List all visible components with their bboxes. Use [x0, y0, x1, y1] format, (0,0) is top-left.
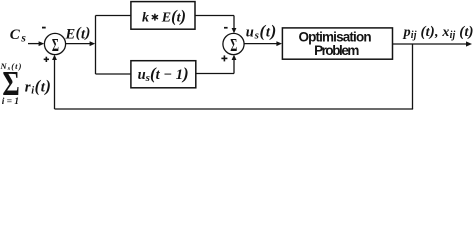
- delay block us(t-1): [131, 61, 196, 88]
- svg-text:Σ: Σ: [230, 37, 237, 56]
- svg-text:ri(t): ri(t): [25, 76, 52, 96]
- summation sigma symbol: [2, 63, 19, 102]
- minus sign at S1 top input: [42, 27, 46, 29]
- svg-text:Problem: Problem: [314, 43, 359, 58]
- gain block k*E(t): [131, 2, 195, 30]
- wire output pij(t), xij(t): [393, 41, 472, 46]
- wire feedback tap down: [412, 44, 414, 109]
- wire to delay block input: [96, 73, 131, 75]
- svg-text:us(t): us(t): [246, 22, 277, 42]
- wire delay block output to S2 bottom: [196, 55, 237, 74]
- svg-text:Σ: Σ: [52, 37, 59, 56]
- summing junction S2: [223, 33, 244, 56]
- wire Cs input arrow into summing junction S1: [28, 41, 44, 46]
- wire to gain block input: [96, 15, 131, 17]
- summing junction S1: [44, 33, 65, 56]
- wire E(t) from S1 to branch point: [66, 41, 95, 46]
- svg-text:i=1: i=1: [2, 97, 21, 107]
- wire branch vertical at node E: [95, 16, 97, 75]
- svg-text:E(t): E(t): [65, 25, 91, 42]
- wire feedback left rise into S1: [52, 55, 57, 109]
- plus sign at S2 bottom input: [221, 55, 227, 61]
- svg-text:us(t − 1): us(t − 1): [138, 64, 189, 84]
- optimisation problem block: [282, 28, 392, 59]
- wire us(t) from S2 to optimisation block: [244, 41, 282, 46]
- svg-text:k: k: [142, 10, 149, 25]
- asterisk operator in gain block: [152, 14, 157, 20]
- wire gain block output to S2 top: [195, 16, 236, 34]
- minus sign at S2 top input: [224, 27, 228, 29]
- wire feedback bottom run: [55, 108, 414, 110]
- plus sign at S1 bottom input: [44, 57, 49, 62]
